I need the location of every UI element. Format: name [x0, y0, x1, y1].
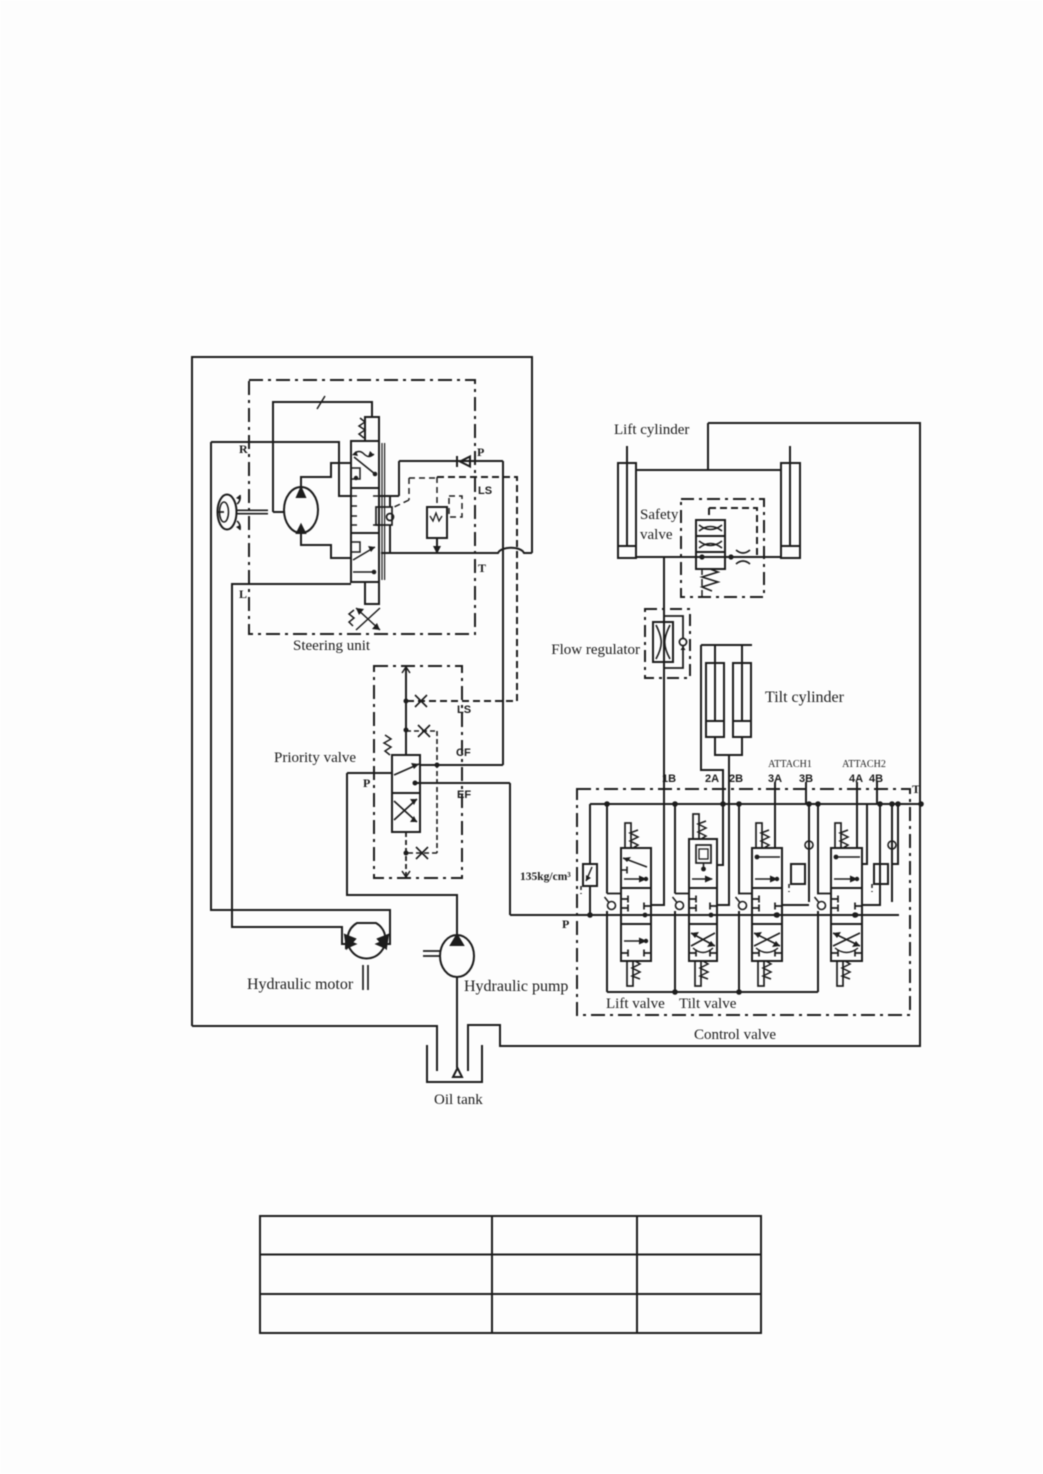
svg-text:valve: valve [640, 527, 673, 543]
svg-text:4A: 4A [849, 773, 863, 785]
svg-text:P: P [562, 917, 569, 931]
svg-text:3A: 3A [768, 773, 782, 785]
svg-text:R: R [239, 442, 248, 456]
svg-text:Lift cylinder: Lift cylinder [614, 422, 689, 438]
svg-text:4B: 4B [869, 773, 883, 785]
svg-text:CF: CF [456, 747, 471, 759]
svg-text:Flow regulator: Flow regulator [551, 642, 640, 658]
svg-text:1B: 1B [662, 773, 676, 785]
svg-text:ATTACH2: ATTACH2 [842, 759, 886, 770]
svg-text:Lift valve: Lift valve [606, 996, 665, 1012]
svg-text:2B: 2B [729, 773, 743, 785]
svg-text:Safety: Safety [640, 507, 679, 523]
svg-text:3B: 3B [799, 773, 813, 785]
svg-text:T: T [912, 782, 920, 796]
svg-text:Control valve: Control valve [694, 1027, 776, 1043]
svg-text:Tilt cylinder: Tilt cylinder [765, 689, 845, 706]
svg-text:2A: 2A [705, 773, 719, 785]
svg-text:LS: LS [478, 485, 492, 497]
svg-text:Oil tank: Oil tank [434, 1092, 483, 1108]
svg-text:P: P [363, 776, 370, 790]
svg-text:EF: EF [457, 789, 471, 801]
svg-text:P: P [477, 445, 484, 459]
svg-text:Steering unit: Steering unit [293, 638, 371, 654]
svg-text:135kg/cm³: 135kg/cm³ [520, 871, 571, 883]
svg-text:LS: LS [457, 704, 471, 716]
svg-text:L: L [239, 587, 247, 601]
svg-text:ATTACH1: ATTACH1 [768, 759, 812, 770]
svg-text:Tilt valve: Tilt valve [679, 996, 737, 1012]
svg-text:Hydraulic pump: Hydraulic pump [464, 978, 568, 995]
svg-text:Priority valve: Priority valve [274, 750, 356, 766]
svg-text:Hydraulic motor: Hydraulic motor [247, 976, 354, 993]
svg-text:T: T [478, 561, 486, 575]
